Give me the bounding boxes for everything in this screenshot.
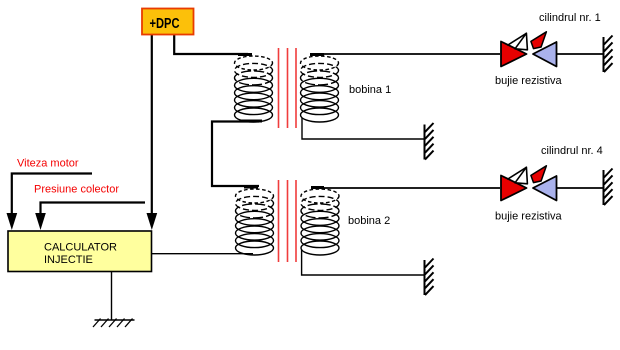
chassis terminal spark plug 1 bbox=[604, 36, 613, 73]
wire : spark plug 1 to engine block bbox=[557, 53, 604, 55]
inductor L4 secondary of bobina 2 bbox=[301, 189, 339, 255]
wire : primary 2 top lead bbox=[244, 186, 258, 189]
svg-text:CALCULATOR: CALCULATOR bbox=[44, 242, 117, 254]
spark plug 2 (bujie rezistiva) bbox=[501, 166, 557, 201]
ground symbol below calculator bbox=[93, 319, 135, 328]
wire : primary 1 bottom to primary 2 top (series link) bbox=[212, 122, 259, 187]
wire : HT rail coil 2 to spark plug 2 bbox=[311, 187, 500, 189]
calculator injectie box U1 bbox=[8, 231, 152, 272]
chassis ground secondary 1 bbox=[425, 123, 434, 160]
svg-text:cilindrul nr. 1: cilindrul nr. 1 bbox=[539, 12, 601, 24]
svg-text:cilindrul nr. 4: cilindrul nr. 4 bbox=[541, 145, 603, 157]
wire : spark plug 2 to engine block bbox=[557, 187, 604, 189]
wire : primary 1 bottom lead bbox=[241, 120, 262, 123]
svg-text:+DPC: +DPC bbox=[150, 16, 180, 32]
arrow into calculator (+DPC) bbox=[147, 213, 158, 230]
inductor L3 primary of bobina 2 bbox=[236, 189, 274, 255]
inductor L1 primary of bobina 1 bbox=[235, 56, 273, 122]
wire : secondary 1 top lead bbox=[310, 53, 324, 56]
inductor L2 secondary of bobina 1 bbox=[301, 56, 339, 122]
chassis ground secondary 2 bbox=[425, 259, 434, 296]
core of bobina 1 bbox=[279, 48, 297, 128]
wire : secondary 1 to ground bbox=[302, 118, 424, 139]
wire : calculator to ground bbox=[111, 272, 113, 321]
wire : viteza motor input bbox=[12, 174, 92, 219]
arrow into calculator (presiune) bbox=[35, 213, 46, 230]
svg-text:bujie rezistiva: bujie rezistiva bbox=[495, 75, 563, 87]
wire : calculator output to primary 2 bbox=[150, 253, 253, 255]
svg-text:bujie rezistiva: bujie rezistiva bbox=[495, 211, 563, 223]
power +DPC bbox=[142, 9, 194, 35]
wire : +DPC left lead down to calculator bbox=[151, 35, 153, 218]
svg-text:Viteza motor: Viteza motor bbox=[17, 158, 79, 170]
svg-text:bobina 1: bobina 1 bbox=[349, 84, 391, 96]
svg-text:INJECTIE: INJECTIE bbox=[44, 254, 93, 266]
wire : secondary 2 top lead bbox=[311, 186, 324, 189]
wire : secondary 2 to ground bbox=[302, 250, 424, 275]
core of bobina 2 bbox=[279, 180, 297, 262]
wire : presiune colector input bbox=[41, 203, 146, 219]
chassis terminal spark plug 2 bbox=[604, 169, 613, 206]
svg-text:bobina 2: bobina 2 bbox=[348, 215, 390, 227]
wire : +DPC right lead down bbox=[174, 35, 248, 54]
arrow into calculator (viteza) bbox=[7, 213, 18, 230]
wire : primary 1 top lead bbox=[238, 53, 252, 56]
svg-text:Presiune colector: Presiune colector bbox=[34, 184, 119, 196]
spark plug 1 (bujie rezistiva) bbox=[501, 32, 557, 67]
wire : HT rail coil 1 to spark plug 1 bbox=[313, 53, 500, 55]
